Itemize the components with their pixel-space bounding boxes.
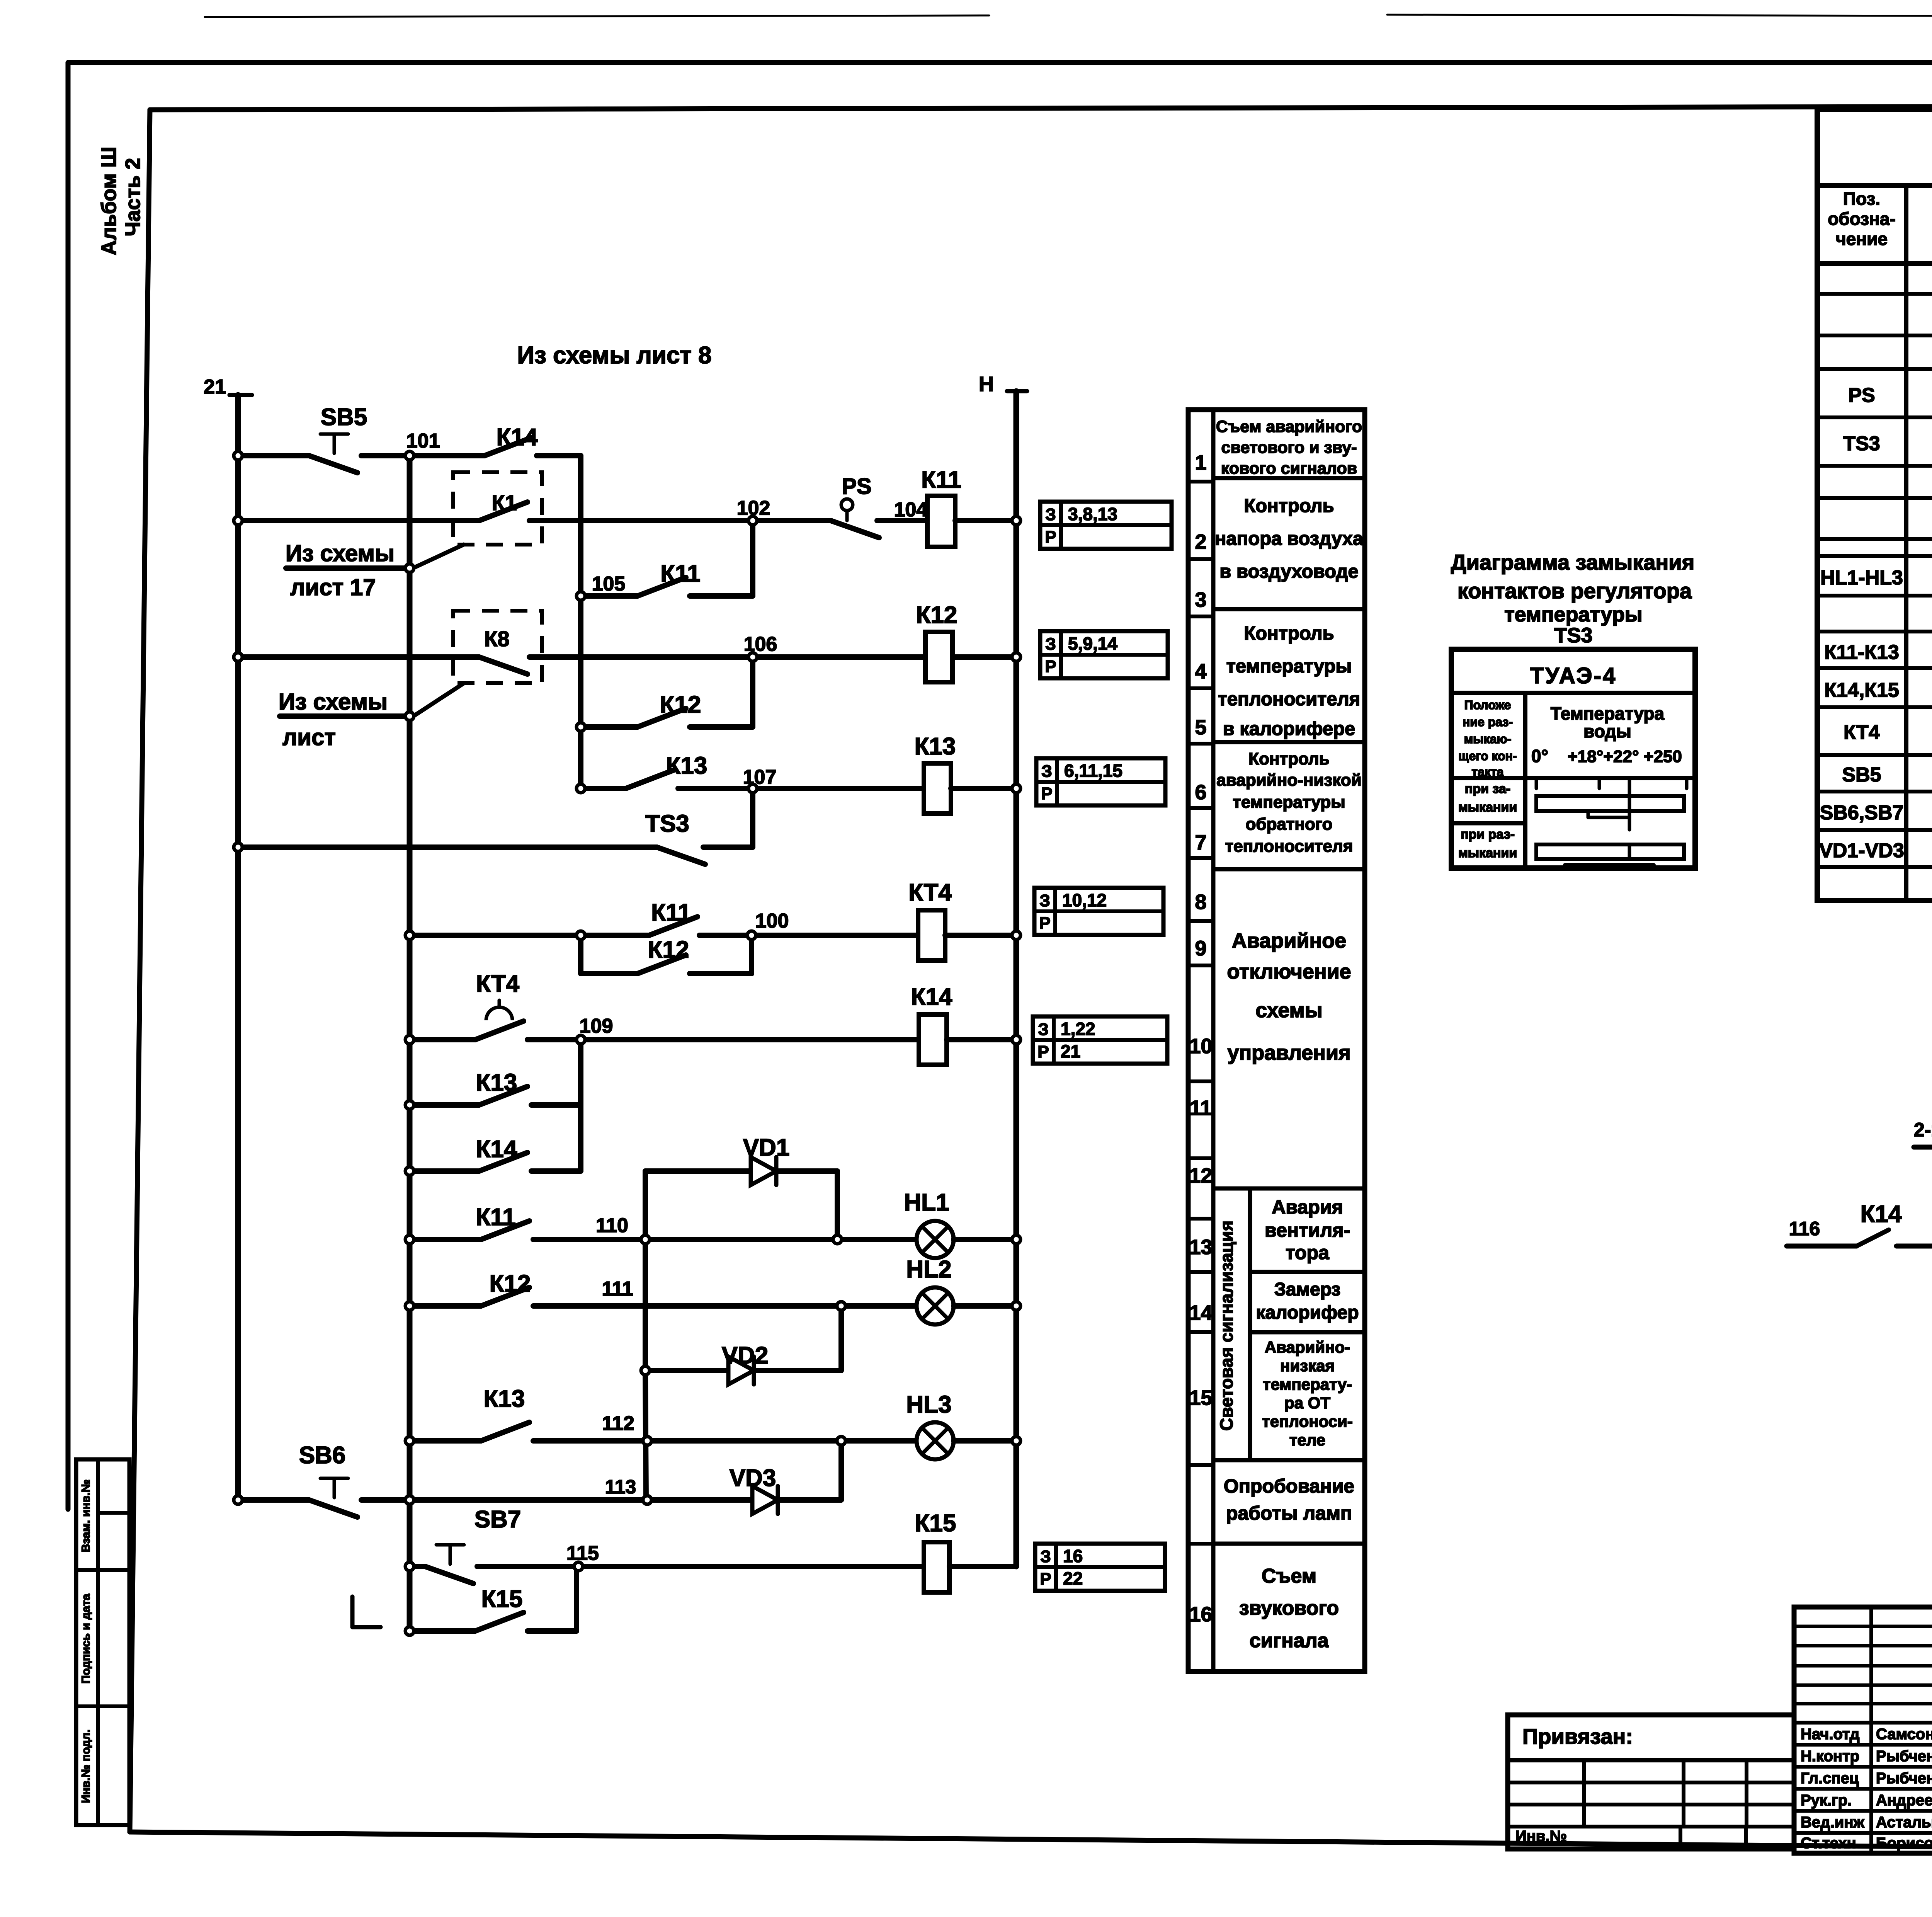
svg-text:К13: К13: [666, 752, 707, 779]
svg-text:105: 105: [592, 573, 626, 595]
svg-text:5,9,14: 5,9,14: [1068, 633, 1117, 654]
svg-text:SB6: SB6: [299, 1442, 346, 1469]
svg-text:К14: К14: [476, 1136, 517, 1163]
svg-text:PS: PS: [842, 474, 871, 499]
svg-text:Борисова: Борисова: [1876, 1835, 1932, 1852]
svg-text:16: 16: [1189, 1603, 1212, 1626]
svg-text:Р: Р: [1045, 528, 1056, 546]
svg-text:ТS3: ТS3: [645, 810, 689, 837]
svg-text:1,22: 1,22: [1061, 1019, 1095, 1039]
svg-text:контактов регулятора: контактов регулятора: [1458, 579, 1692, 603]
svg-text:22: 22: [1063, 1568, 1083, 1588]
svg-text:Нач.отд: Нач.отд: [1801, 1726, 1859, 1743]
svg-text:Астальцева: Астальцева: [1876, 1814, 1932, 1831]
svg-text:9: 9: [1195, 937, 1206, 960]
svg-text:сигнала: сигнала: [1250, 1629, 1329, 1652]
svg-text:ТS3: ТS3: [1554, 624, 1592, 647]
svg-text:Диаграмма замыкания: Диаграмма замыкания: [1451, 550, 1695, 574]
svg-text:обозна-: обозна-: [1828, 209, 1896, 229]
svg-text:К14: К14: [497, 424, 538, 451]
svg-text:КТ4: КТ4: [476, 970, 519, 997]
svg-text:мыкании: мыкании: [1458, 846, 1517, 860]
svg-text:К14: К14: [1861, 1201, 1902, 1227]
svg-text:VD1: VD1: [743, 1134, 790, 1161]
svg-text:К1: К1: [492, 490, 517, 515]
svg-text:К13: К13: [915, 733, 956, 760]
svg-text:К11: К11: [660, 560, 700, 587]
svg-text:К15: К15: [915, 1510, 956, 1537]
svg-text:Р: Р: [1045, 657, 1056, 676]
svg-text:калорифер: калорифер: [1256, 1302, 1359, 1323]
svg-text:SВ6,SВ7: SВ6,SВ7: [1820, 802, 1904, 824]
svg-text:Из схемы: Из схемы: [279, 689, 388, 715]
svg-text:схемы: схемы: [1255, 999, 1322, 1022]
svg-text:Инв.№: Инв.№: [1515, 1828, 1567, 1845]
svg-text:Альбом Ш: Альбом Ш: [97, 146, 121, 255]
svg-text:в калорифере: в калорифере: [1223, 718, 1355, 739]
svg-text:теле: теле: [1289, 1431, 1325, 1449]
svg-text:113: 113: [605, 1476, 636, 1498]
svg-text:при за-: при за-: [1465, 781, 1510, 796]
svg-text:16: 16: [1063, 1546, 1083, 1566]
svg-text:светового и зву-: светового и зву-: [1221, 438, 1357, 457]
svg-text:аварийно-низкой: аварийно-низкой: [1216, 771, 1361, 790]
svg-text:Р: Р: [1037, 1042, 1049, 1061]
svg-text:температу-: температу-: [1263, 1375, 1352, 1393]
svg-text:тора: тора: [1286, 1242, 1330, 1263]
svg-text:21: 21: [204, 376, 226, 398]
svg-text:работы ламп: работы ламп: [1226, 1502, 1352, 1524]
svg-text:К11: К11: [476, 1204, 515, 1231]
svg-text:З: З: [1045, 635, 1056, 654]
svg-text:5: 5: [1195, 716, 1206, 739]
svg-text:106: 106: [744, 633, 777, 655]
svg-text:11: 11: [1190, 1096, 1212, 1120]
svg-text:Привязан:: Привязан:: [1522, 1724, 1633, 1748]
svg-text:кового сигналов: кового сигналов: [1221, 459, 1357, 478]
svg-text:4: 4: [1195, 660, 1206, 683]
svg-text:К11-К13: К11-К13: [1824, 641, 1899, 664]
svg-text:Инв.№ подл.: Инв.№ подл.: [80, 1730, 92, 1803]
svg-text:Н: Н: [979, 373, 994, 396]
svg-text:Андреева: Андреева: [1876, 1792, 1932, 1809]
svg-text:2-10: 2-10: [1914, 1119, 1932, 1141]
svg-text:лист 17: лист 17: [290, 574, 376, 600]
svg-text:воды: воды: [1583, 721, 1631, 741]
svg-text:Контроль: Контроль: [1244, 495, 1334, 516]
svg-text:10,12: 10,12: [1062, 890, 1107, 910]
svg-text:К15: К15: [481, 1586, 523, 1612]
svg-text:SB7: SB7: [474, 1506, 521, 1533]
svg-text:13: 13: [1189, 1236, 1212, 1259]
svg-text:HL2: HL2: [906, 1256, 951, 1283]
svg-text:111: 111: [602, 1278, 633, 1300]
svg-text:3,8,13: 3,8,13: [1068, 504, 1117, 524]
svg-text:Поз.: Поз.: [1843, 189, 1880, 209]
svg-text:К11: К11: [921, 466, 961, 493]
svg-text:1: 1: [1195, 451, 1206, 474]
svg-text:110: 110: [596, 1214, 628, 1237]
svg-text:0°: 0°: [1531, 746, 1548, 766]
svg-text:SВ5: SВ5: [1842, 764, 1881, 786]
svg-text:Замерз: Замерз: [1274, 1279, 1341, 1300]
svg-text:такта: такта: [1472, 765, 1504, 779]
svg-text:112: 112: [602, 1412, 634, 1435]
svg-text:К12: К12: [490, 1270, 531, 1297]
svg-text:+18°+22° +250: +18°+22° +250: [1568, 747, 1682, 766]
svg-text:З: З: [1045, 505, 1056, 524]
svg-text:щего кон-: щего кон-: [1458, 749, 1517, 763]
svg-text:6,11,15: 6,11,15: [1064, 761, 1122, 781]
svg-text:3: 3: [1195, 588, 1206, 611]
svg-text:8: 8: [1195, 890, 1206, 914]
svg-text:VD3: VD3: [730, 1465, 776, 1491]
svg-text:Съем: Съем: [1262, 1565, 1316, 1587]
svg-text:Аварийно-: Аварийно-: [1265, 1338, 1350, 1356]
svg-text:ра ОТ: ра ОТ: [1284, 1394, 1330, 1412]
svg-text:6: 6: [1195, 781, 1206, 804]
svg-text:Часть 2: Часть 2: [121, 158, 145, 237]
svg-text:VD2: VD2: [722, 1342, 769, 1369]
svg-text:в воздуховоде: в воздуховоде: [1219, 561, 1359, 582]
svg-text:Н.контр: Н.контр: [1801, 1748, 1859, 1765]
svg-text:PS: PS: [1848, 384, 1875, 407]
svg-text:К14,К15: К14,К15: [1824, 679, 1899, 701]
svg-text:Из схемы лист 8: Из схемы лист 8: [517, 342, 712, 369]
svg-text:10: 10: [1189, 1035, 1212, 1058]
svg-text:К8: К8: [484, 627, 509, 651]
svg-text:температуры: температуры: [1226, 656, 1352, 677]
svg-text:звукового: звукового: [1239, 1597, 1339, 1619]
svg-text:низкая: низкая: [1280, 1357, 1335, 1375]
svg-text:12: 12: [1189, 1164, 1212, 1187]
svg-text:Гл.спец: Гл.спец: [1801, 1770, 1859, 1787]
svg-text:Р: Р: [1039, 914, 1050, 933]
svg-text:Взам. инв.№: Взам. инв.№: [80, 1479, 92, 1553]
svg-text:З: З: [1040, 1547, 1051, 1566]
svg-text:116: 116: [1789, 1218, 1820, 1239]
svg-text:104: 104: [894, 499, 928, 521]
svg-text:Р: Р: [1041, 784, 1052, 803]
svg-text:мыкаю-: мыкаю-: [1464, 732, 1512, 746]
svg-text:температуры: температуры: [1504, 603, 1643, 626]
svg-text:101: 101: [406, 430, 440, 452]
svg-text:Рыбченко: Рыбченко: [1876, 1770, 1932, 1787]
svg-text:отключение: отключение: [1227, 960, 1351, 983]
svg-text:15: 15: [1189, 1386, 1212, 1410]
svg-text:100: 100: [755, 910, 789, 932]
svg-text:обратного: обратного: [1245, 815, 1332, 834]
svg-text:теплоносителя: теплоносителя: [1225, 837, 1353, 856]
svg-text:Контроль: Контроль: [1248, 749, 1330, 768]
svg-text:7: 7: [1195, 831, 1206, 854]
svg-text:VD1-VD3: VD1-VD3: [1819, 839, 1904, 862]
svg-text:HL3: HL3: [906, 1391, 951, 1418]
svg-text:Ст.техн: Ст.техн: [1801, 1835, 1856, 1852]
svg-text:21: 21: [1061, 1041, 1080, 1061]
svg-text:К13: К13: [476, 1069, 517, 1096]
svg-text:теплоноси-: теплоноси-: [1262, 1412, 1353, 1430]
svg-text:К12: К12: [648, 936, 689, 963]
svg-text:Опробование: Опробование: [1224, 1475, 1354, 1497]
svg-text:Р: Р: [1040, 1570, 1051, 1588]
svg-text:при раз-: при раз-: [1461, 827, 1515, 842]
svg-text:ние раз-: ние раз-: [1463, 715, 1513, 729]
svg-text:лист: лист: [282, 724, 336, 750]
svg-text:ТS3: ТS3: [1843, 432, 1880, 455]
svg-text:напора воздуха: напора воздуха: [1215, 528, 1364, 549]
svg-text:НL1-НL3: НL1-НL3: [1820, 567, 1903, 589]
svg-text:14: 14: [1189, 1301, 1212, 1325]
svg-text:Подпись и дата: Подпись и дата: [80, 1594, 92, 1684]
svg-text:ТУАЭ-4: ТУАЭ-4: [1530, 663, 1617, 688]
svg-text:З: З: [1041, 762, 1052, 781]
svg-text:115: 115: [566, 1542, 599, 1565]
svg-text:SB5: SB5: [321, 404, 367, 431]
svg-text:HL1: HL1: [904, 1189, 949, 1216]
svg-text:2: 2: [1195, 530, 1206, 553]
svg-text:мыкании: мыкании: [1458, 800, 1517, 815]
svg-text:Из схемы: Из схемы: [286, 540, 395, 566]
svg-text:Рыбченко: Рыбченко: [1876, 1748, 1932, 1765]
svg-text:КТ4: КТ4: [908, 879, 952, 906]
svg-text:Съем аварийного: Съем аварийного: [1216, 417, 1362, 436]
svg-text:З: З: [1039, 891, 1050, 910]
svg-text:Авария: Авария: [1272, 1196, 1343, 1218]
svg-text:чение: чение: [1836, 229, 1888, 249]
svg-text:температуры: температуры: [1233, 793, 1345, 812]
svg-text:109: 109: [580, 1015, 613, 1037]
svg-text:К12: К12: [660, 691, 701, 718]
svg-text:вентиля-: вентиля-: [1265, 1219, 1350, 1241]
svg-text:Температура: Температура: [1551, 703, 1665, 724]
svg-text:Световая сигнализация: Световая сигнализация: [1216, 1221, 1236, 1431]
svg-text:К12: К12: [916, 602, 957, 628]
svg-text:управления: управления: [1227, 1041, 1350, 1064]
svg-text:З: З: [1038, 1020, 1049, 1039]
svg-text:Вед.инж: Вед.инж: [1801, 1814, 1864, 1831]
svg-text:К13: К13: [484, 1386, 525, 1412]
svg-text:Рук.гр.: Рук.гр.: [1801, 1792, 1852, 1809]
svg-text:Положе: Положе: [1464, 698, 1511, 712]
svg-text:К11: К11: [651, 899, 691, 926]
svg-text:Контроль: Контроль: [1244, 623, 1334, 644]
svg-text:Самсонов: Самсонов: [1876, 1726, 1932, 1743]
svg-text:КТ4: КТ4: [1844, 721, 1880, 744]
svg-text:Аварийное: Аварийное: [1232, 929, 1347, 952]
svg-text:К14: К14: [911, 984, 952, 1010]
svg-text:теплоносителя: теплоносителя: [1218, 689, 1360, 710]
